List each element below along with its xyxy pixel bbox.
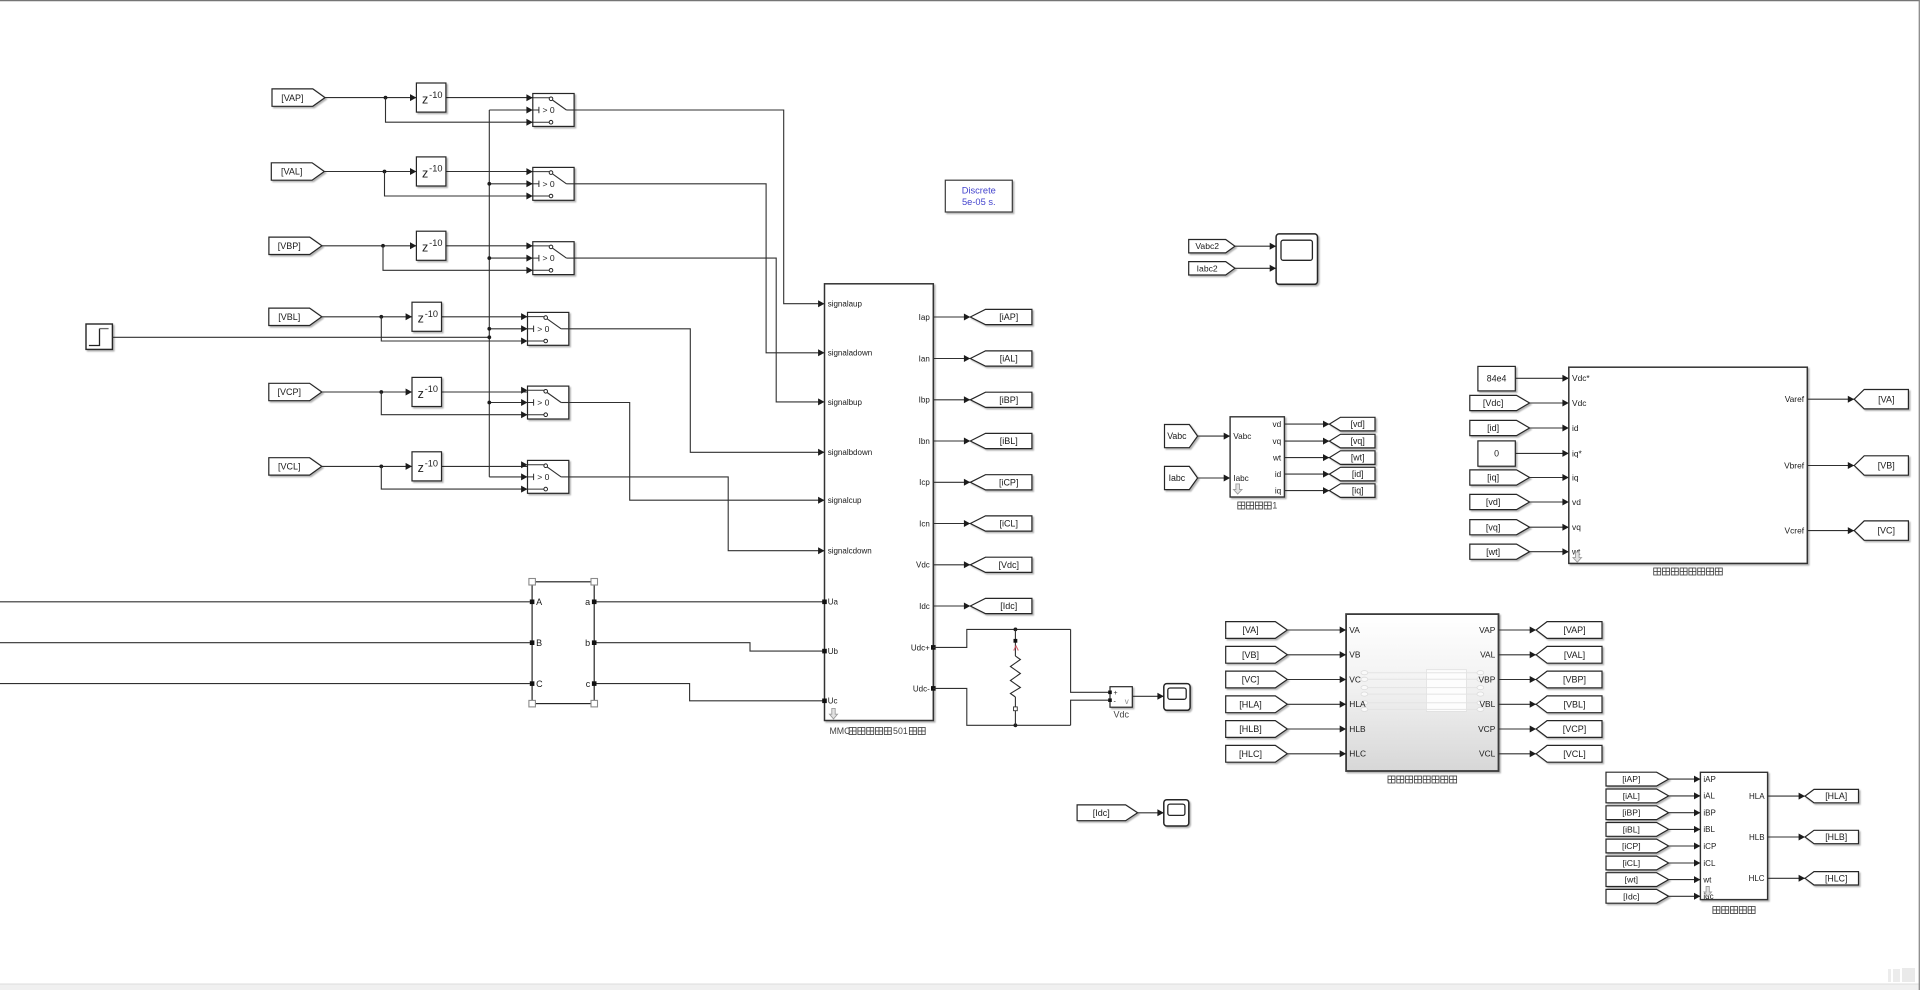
svg-text:> 0: > 0 xyxy=(537,472,549,482)
svg-text:Iabc: Iabc xyxy=(1233,474,1248,483)
svg-text:[wt]: [wt] xyxy=(1351,453,1365,463)
svg-text:id: id xyxy=(1572,423,1579,433)
svg-text:signalbdown: signalbdown xyxy=(828,448,872,457)
svg-text:[iCL]: [iCL] xyxy=(999,519,1018,529)
svg-text:Uc: Uc xyxy=(828,697,838,706)
svg-text:[iCP]: [iCP] xyxy=(1622,841,1641,851)
svg-text:Iap: Iap xyxy=(919,313,931,322)
svg-text:[Idc]: [Idc] xyxy=(1093,808,1110,818)
svg-text:> 0: > 0 xyxy=(543,105,555,115)
svg-text:[Vdc]: [Vdc] xyxy=(1483,398,1504,408)
svg-text:[iCP]: [iCP] xyxy=(999,477,1019,487)
svg-text:-10: -10 xyxy=(429,164,442,174)
svg-text:signaladown: signaladown xyxy=(828,349,872,358)
svg-text:[iBL]: [iBL] xyxy=(1623,824,1640,834)
svg-text:[VB]: [VB] xyxy=(1242,650,1259,660)
svg-text:VCL: VCL xyxy=(1479,749,1496,759)
svg-text:iAL: iAL xyxy=(1703,792,1715,801)
svg-text:[id]: [id] xyxy=(1352,469,1364,479)
svg-text:iBL: iBL xyxy=(1703,825,1715,834)
svg-text:[iq]: [iq] xyxy=(1352,486,1364,496)
svg-text:Icp: Icp xyxy=(919,478,930,487)
svg-text:VCP: VCP xyxy=(1478,724,1496,734)
svg-text:vq: vq xyxy=(1572,522,1581,532)
svg-text:Vdc: Vdc xyxy=(1572,398,1586,408)
svg-text:b: b xyxy=(585,638,590,648)
svg-text:[iq]: [iq] xyxy=(1487,473,1499,483)
svg-text:Ibp: Ibp xyxy=(919,396,931,405)
svg-text:iq: iq xyxy=(1572,472,1579,482)
svg-text:Discrete: Discrete xyxy=(962,186,996,196)
svg-text:+: + xyxy=(1114,690,1118,697)
svg-text:[VCL]: [VCL] xyxy=(278,462,301,472)
svg-text:[VAL]: [VAL] xyxy=(281,167,302,177)
svg-text:Vabc: Vabc xyxy=(1233,432,1251,441)
svg-text:Vdc*: Vdc* xyxy=(1572,373,1590,383)
svg-text:[VBP]: [VBP] xyxy=(1563,675,1586,685)
svg-text:HLA: HLA xyxy=(1349,699,1366,709)
svg-text:> 0: > 0 xyxy=(537,324,549,334)
svg-text:[wt]: [wt] xyxy=(1625,875,1638,885)
svg-text:[VAP]: [VAP] xyxy=(281,93,303,103)
svg-text:[VC]: [VC] xyxy=(1878,526,1896,536)
svg-text:z: z xyxy=(422,166,428,180)
svg-text:[wt]: [wt] xyxy=(1486,547,1500,557)
svg-text:5e-05 s.: 5e-05 s. xyxy=(962,197,996,207)
svg-text:wt: wt xyxy=(1702,875,1712,884)
svg-text:[VBL]: [VBL] xyxy=(278,312,300,322)
svg-text:[HLA]: [HLA] xyxy=(1825,791,1847,801)
svg-text:Ian: Ian xyxy=(919,354,930,363)
svg-text:> 0: > 0 xyxy=(537,398,549,408)
svg-text:[VC]: [VC] xyxy=(1242,675,1260,685)
svg-text:> 0: > 0 xyxy=(543,179,555,189)
svg-text:signalaup: signalaup xyxy=(828,300,863,309)
svg-text:Vbref: Vbref xyxy=(1784,460,1805,470)
svg-text:[VBL]: [VBL] xyxy=(1563,699,1585,709)
svg-text:HLC: HLC xyxy=(1349,749,1366,759)
svg-text:z: z xyxy=(418,312,424,326)
svg-text:[VAP]: [VAP] xyxy=(1563,625,1585,635)
svg-text:Ub: Ub xyxy=(828,647,839,656)
svg-text:signalbup: signalbup xyxy=(828,398,863,407)
svg-text:signalcup: signalcup xyxy=(828,496,862,505)
svg-text:-10: -10 xyxy=(429,238,442,248)
svg-text:HLA: HLA xyxy=(1749,792,1765,801)
svg-text:Vdc: Vdc xyxy=(916,561,930,570)
svg-text:MMC: MMC xyxy=(829,726,851,736)
svg-text:[iBL]: [iBL] xyxy=(1000,436,1018,446)
svg-text:Udc-: Udc- xyxy=(913,684,930,693)
svg-text:z: z xyxy=(418,461,424,475)
svg-text:Vabc: Vabc xyxy=(1167,431,1187,441)
svg-text:VA: VA xyxy=(1349,625,1360,635)
svg-text:[HLC]: [HLC] xyxy=(1239,749,1262,759)
svg-text:iCP: iCP xyxy=(1703,842,1716,851)
svg-text:[VB]: [VB] xyxy=(1878,461,1895,471)
svg-text:[Idc]: [Idc] xyxy=(1623,891,1639,901)
svg-text:[id]: [id] xyxy=(1487,423,1499,433)
svg-text:vq: vq xyxy=(1273,437,1282,446)
svg-text:[VBP]: [VBP] xyxy=(278,241,301,251)
svg-text:Icn: Icn xyxy=(919,519,930,528)
svg-text:501: 501 xyxy=(893,726,908,736)
svg-text:VAP: VAP xyxy=(1479,625,1496,635)
svg-text:[HLC]: [HLC] xyxy=(1825,873,1848,883)
svg-text:Vdc: Vdc xyxy=(1113,710,1129,720)
svg-text:[HLB]: [HLB] xyxy=(1239,724,1262,734)
svg-text:0: 0 xyxy=(1494,449,1499,459)
svg-text:VBL: VBL xyxy=(1479,699,1495,709)
svg-text:VAL: VAL xyxy=(1480,650,1496,660)
svg-text:VC: VC xyxy=(1349,674,1361,684)
svg-text:Ua: Ua xyxy=(828,598,839,607)
svg-text:Varef: Varef xyxy=(1785,394,1805,404)
svg-text:HLB: HLB xyxy=(1349,724,1366,734)
svg-text:Vabc2: Vabc2 xyxy=(1195,241,1219,251)
svg-text:[iAL]: [iAL] xyxy=(1000,354,1018,364)
svg-text:[iAL]: [iAL] xyxy=(1623,791,1640,801)
svg-text:vd: vd xyxy=(1572,497,1581,507)
svg-text:Vcref: Vcref xyxy=(1785,526,1805,536)
svg-text:Udc+: Udc+ xyxy=(911,643,930,652)
svg-text:c: c xyxy=(586,679,591,689)
svg-text:iBP: iBP xyxy=(1703,809,1715,818)
svg-text:HLC: HLC xyxy=(1749,874,1765,883)
svg-text:[Idc]: [Idc] xyxy=(1000,601,1017,611)
svg-text:[VCP]: [VCP] xyxy=(1563,724,1587,734)
svg-text:[iAP]: [iAP] xyxy=(999,312,1018,322)
svg-text:-10: -10 xyxy=(425,309,438,319)
svg-text:[iBP]: [iBP] xyxy=(1622,808,1640,818)
svg-text:[vd]: [vd] xyxy=(1351,419,1365,429)
svg-text:[VCP]: [VCP] xyxy=(277,387,301,397)
svg-text:[iCL]: [iCL] xyxy=(1622,858,1640,868)
svg-text:z: z xyxy=(422,241,428,255)
svg-text:[HLA]: [HLA] xyxy=(1239,699,1262,709)
svg-text:signalcdown: signalcdown xyxy=(828,547,872,556)
svg-text:id: id xyxy=(1275,470,1282,479)
svg-text:[Vdc]: [Vdc] xyxy=(998,560,1019,570)
svg-text:wt: wt xyxy=(1272,454,1282,463)
svg-text:1: 1 xyxy=(1272,501,1277,511)
svg-text:-10: -10 xyxy=(425,459,438,469)
svg-text:v: v xyxy=(1125,697,1129,706)
svg-text:iCL: iCL xyxy=(1703,859,1716,868)
svg-text:iq: iq xyxy=(1275,487,1282,496)
svg-text:[VA]: [VA] xyxy=(1242,625,1258,635)
svg-text:A: A xyxy=(536,597,542,607)
svg-text:-10: -10 xyxy=(429,90,442,100)
svg-text:Idc: Idc xyxy=(919,602,930,611)
svg-text:84e4: 84e4 xyxy=(1487,373,1507,383)
svg-text:[vq]: [vq] xyxy=(1351,436,1365,446)
svg-text:Iabc: Iabc xyxy=(1169,473,1186,483)
svg-text:iq*: iq* xyxy=(1572,448,1583,458)
svg-text:[vd]: [vd] xyxy=(1486,497,1501,507)
svg-text:HLB: HLB xyxy=(1749,833,1765,842)
svg-text:[iAP]: [iAP] xyxy=(1622,774,1640,784)
svg-text:Ibn: Ibn xyxy=(919,437,930,446)
svg-text:[VAL]: [VAL] xyxy=(1564,650,1585,660)
svg-text:iAP: iAP xyxy=(1703,775,1715,784)
svg-text:z: z xyxy=(418,387,424,401)
svg-text:[HLB]: [HLB] xyxy=(1825,832,1847,842)
svg-text:> 0: > 0 xyxy=(543,253,555,263)
svg-text:vd: vd xyxy=(1273,420,1282,429)
svg-text:[VA]: [VA] xyxy=(1878,394,1894,404)
svg-text:VBP: VBP xyxy=(1479,674,1496,684)
svg-text:[VCL]: [VCL] xyxy=(1563,749,1586,759)
svg-text:VB: VB xyxy=(1349,650,1361,660)
svg-text:[iBP]: [iBP] xyxy=(999,395,1018,405)
svg-text:Iabc2: Iabc2 xyxy=(1197,263,1218,273)
svg-text:B: B xyxy=(536,638,542,648)
svg-text:[vq]: [vq] xyxy=(1486,522,1501,532)
svg-text:C: C xyxy=(536,679,543,689)
svg-text:a: a xyxy=(585,597,590,607)
svg-text:-10: -10 xyxy=(425,384,438,394)
svg-text:z: z xyxy=(422,92,428,106)
